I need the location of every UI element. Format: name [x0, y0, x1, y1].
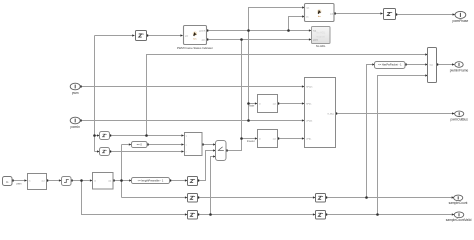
- svg-text:No HDL: No HDL: [316, 44, 326, 48]
- svg-text:== 0: == 0: [137, 143, 143, 147]
- svg-text:pwm: pwm: [72, 91, 79, 95]
- svg-text:pwmPhase: pwmPhase: [453, 19, 469, 23]
- svg-text:bus: bus: [430, 65, 433, 67]
- svg-text:hPds: hPds: [306, 103, 312, 105]
- svg-text:timeout: timeout: [247, 140, 255, 143]
- svg-text:out: out: [273, 102, 276, 105]
- svg-text:No HDL: No HDL: [316, 31, 326, 35]
- svg-text:<= lengthPreamble - 1: <= lengthPreamble - 1: [138, 179, 164, 183]
- svg-text:out: out: [330, 12, 333, 15]
- svg-text:out: out: [108, 180, 111, 183]
- svg-text:support: support: [316, 35, 325, 39]
- svg-text:pwmInFrame: pwmInFrame: [450, 68, 469, 72]
- svg-text:<= HasPwPacket - 1: <= HasPwPacket - 1: [378, 63, 402, 67]
- svg-text:pw: pw: [185, 35, 188, 37]
- svg-text:pwmS: pwmS: [199, 30, 206, 32]
- svg-text:cPwm: cPwm: [306, 120, 312, 122]
- svg-text:O_Bus: O_Bus: [327, 113, 335, 115]
- svg-text:PWM Frame Status Indicator: PWM Frame Status Indicator: [177, 46, 213, 50]
- svg-text:out: out: [273, 137, 276, 140]
- svg-text:sampleCount: sampleCount: [449, 201, 468, 205]
- svg-text:pwm: pwm: [17, 183, 22, 185]
- svg-text:pwmIn: pwmIn: [71, 125, 81, 129]
- svg-text:pwm: pwm: [313, 39, 318, 41]
- svg-text:pwmOutBus: pwmOutBus: [451, 117, 469, 121]
- svg-text:hPwm: hPwm: [306, 86, 312, 88]
- svg-text:out: out: [41, 180, 44, 183]
- svg-text:sampleCountValid: sampleCountValid: [446, 218, 472, 222]
- svg-text:state: state: [249, 105, 255, 108]
